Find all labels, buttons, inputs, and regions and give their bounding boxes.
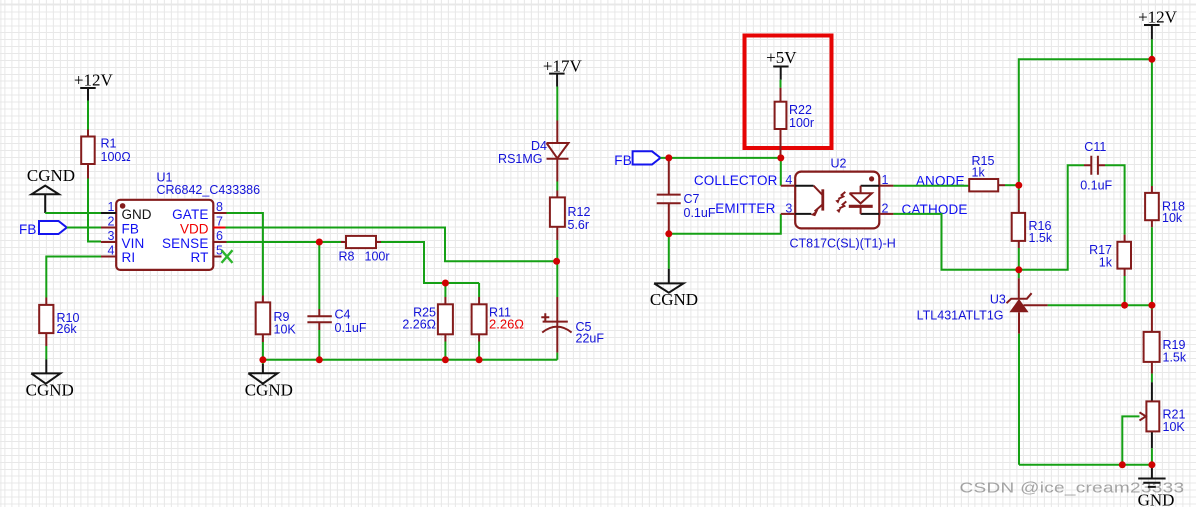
wire C11 to R17: [1105, 165, 1125, 234]
svg-text:R12: R12: [568, 205, 591, 219]
wire GATE pin8 to R9: [227, 213, 263, 296]
svg-text:+17V: +17V: [543, 56, 583, 75]
potentiometer R21 10K: [1140, 382, 1186, 448]
svg-text:10k: 10k: [1162, 211, 1183, 225]
resistor R22 100r: [775, 88, 814, 158]
svg-text:6: 6: [216, 229, 223, 243]
svg-text:3: 3: [108, 229, 115, 243]
wire +12V to R1: [87, 101, 89, 130]
svg-text:CGND: CGND: [650, 290, 698, 309]
svg-text:2: 2: [882, 201, 889, 215]
power flag +12V (left): [74, 71, 114, 101]
svg-text:FB: FB: [19, 222, 37, 237]
net flag FB (left): [19, 221, 67, 237]
ground CGND (under R10): [26, 360, 74, 400]
svg-text:0.1uF: 0.1uF: [684, 206, 716, 220]
svg-text:VDD: VDD: [180, 222, 209, 237]
svg-text:CT817C(SL)(T1)-H: CT817C(SL)(T1)-H: [790, 237, 896, 251]
svg-text:100r: 100r: [789, 116, 814, 130]
optocoupler U2 CT817C(SL)(T1)-H: [781, 157, 896, 251]
svg-text:22uF: 22uF: [576, 332, 605, 346]
ground CGND (under R9): [245, 364, 293, 399]
wire +12V branch: [1019, 59, 1152, 185]
shunt reference U3 LTL431ATLT1G: [917, 270, 1048, 334]
wire collector net: [780, 158, 782, 186]
node R11 rail junction: [476, 356, 483, 363]
wire R16 to node: [1018, 248, 1020, 270]
svg-text:VIN: VIN: [122, 236, 145, 251]
svg-text:1k: 1k: [1099, 255, 1113, 269]
node R22/collector junction: [777, 154, 784, 161]
LED: [861, 186, 880, 214]
svg-text:26k: 26k: [57, 322, 78, 336]
wire R1 to VIN pin3: [88, 179, 101, 242]
node R25 rail junction: [442, 356, 449, 363]
wire R19 to R21: [1151, 374, 1153, 383]
svg-text:U2: U2: [831, 157, 847, 171]
svg-text:4: 4: [785, 173, 792, 187]
svg-text:R8: R8: [339, 250, 355, 264]
pin 4: [101, 256, 116, 258]
svg-text:1: 1: [882, 173, 889, 187]
svg-text:C11: C11: [1084, 140, 1106, 154]
pin 2: [879, 213, 893, 215]
resistor R17 1k: [1089, 235, 1131, 276]
wire +5V to R22: [780, 80, 782, 88]
wire R17 to U3 ref row: [1124, 276, 1126, 305]
ground CGND (top left): [27, 166, 75, 213]
pin 6: [213, 241, 226, 243]
node R15/R16 junction: [1015, 182, 1022, 189]
node SENSE/C4 junction: [316, 239, 323, 246]
node VDD/R12/C5 junction: [553, 258, 560, 265]
pin 7: [213, 227, 225, 229]
svg-text:0.1uF: 0.1uF: [1080, 179, 1112, 193]
svg-text:GND: GND: [122, 207, 152, 222]
svg-text:RT: RT: [190, 250, 208, 265]
wire bottom CGND rail: [263, 359, 557, 361]
power flag +5V: [766, 48, 797, 80]
svg-text:FB: FB: [122, 222, 140, 237]
pin 3: [781, 213, 795, 215]
net flag FB (right): [614, 151, 660, 168]
wire C7 to CGND: [668, 234, 670, 269]
wire pin4 RI to R10: [46, 257, 101, 298]
svg-text:GND: GND: [1138, 491, 1175, 507]
resistor R25 2.26R: [402, 283, 453, 342]
wire C5 to rail: [556, 353, 558, 360]
pin 8: [213, 212, 226, 214]
resistor R19 1.5k: [1144, 305, 1187, 373]
node R9/CGND rail junction: [259, 356, 266, 363]
wire +12V rail: [1151, 39, 1153, 186]
svg-text:C4: C4: [335, 308, 351, 322]
wire anode to R15: [893, 185, 969, 187]
node wiper/rail junction: [1119, 461, 1126, 468]
svg-text:+5V: +5V: [766, 48, 797, 67]
resistor R9 10K: [256, 296, 297, 343]
svg-text:+12V: +12V: [74, 71, 114, 90]
resistor R18 10k: [1145, 186, 1185, 227]
svg-text:LTL431ATLT1G: LTL431ATLT1G: [917, 309, 1004, 323]
highlight box (red): [745, 36, 832, 149]
svg-text:1.5k: 1.5k: [1029, 231, 1053, 245]
svg-text:4: 4: [108, 244, 115, 258]
resistor R16 1.5k: [1012, 185, 1053, 248]
capacitor C7 0.1uF: [657, 158, 716, 234]
svg-text:+12V: +12V: [1138, 7, 1178, 26]
wire VDD pin7 to R12/C5 node: [226, 228, 557, 262]
pin 5: [213, 256, 221, 258]
svg-text:U3: U3: [990, 292, 1006, 306]
phototransistor: [814, 186, 823, 212]
wire R15 to node: [1005, 184, 1019, 186]
svg-text:5.6r: 5.6r: [568, 218, 590, 232]
wire CGND to pin1: [45, 212, 101, 214]
wire C4 to rail: [318, 330, 320, 360]
pin 3: [101, 241, 116, 243]
light arrows: [838, 192, 846, 209]
svg-text:10K: 10K: [1163, 420, 1186, 434]
svg-text:COLLECTOR: COLLECTOR: [694, 173, 778, 188]
wire cathode net: [893, 165, 1084, 269]
svg-text:8: 8: [216, 200, 223, 214]
svg-text:1k: 1k: [972, 166, 986, 180]
svg-text:2.26Ω: 2.26Ω: [489, 317, 524, 332]
capacitor C4 0.1uF: [307, 242, 366, 335]
no-connect X on pin5 RT: [222, 250, 233, 263]
node C7/emitter junction: [665, 230, 672, 237]
power flag +12V (right): [1138, 7, 1178, 39]
svg-text:GATE: GATE: [172, 207, 208, 222]
resistor R15 1k: [969, 154, 1005, 191]
svg-text:FB: FB: [614, 153, 632, 168]
wire R21 to rail: [1151, 448, 1153, 465]
wire bottom GND rail: [1019, 464, 1152, 466]
pin 2: [101, 227, 116, 229]
wire R9 to rail: [262, 342, 264, 364]
svg-text:R22: R22: [789, 103, 812, 117]
resistor R12 5.6r: [550, 191, 591, 241]
svg-text:10K: 10K: [274, 323, 297, 337]
ground CGND (under C7): [650, 269, 698, 309]
svg-text:0.1uF: 0.1uF: [335, 321, 367, 335]
svg-text:RI: RI: [122, 250, 136, 265]
svg-text:CGND: CGND: [26, 380, 74, 399]
node R25 top junction: [442, 280, 449, 287]
svg-text:CR6842_C433386: CR6842_C433386: [157, 183, 261, 197]
node +12V branch junction: [1148, 56, 1155, 63]
svg-text:1.5k: 1.5k: [1163, 351, 1187, 365]
node GND rail junction: [1148, 461, 1155, 468]
ground GND: [1138, 465, 1175, 507]
wire R18 to ref row: [1151, 227, 1153, 305]
wire SENSE pin6 to R8: [227, 241, 342, 243]
power flag +17V: [543, 56, 583, 86]
wire R21 wiper: [1122, 416, 1139, 464]
svg-text:3: 3: [785, 201, 792, 215]
svg-text:SENSE: SENSE: [162, 236, 209, 251]
svg-text:100r: 100r: [365, 250, 390, 264]
wire emitter net: [669, 214, 781, 234]
svg-text:C7: C7: [684, 192, 700, 206]
pin 4: [781, 185, 795, 187]
wire +17V to D4: [556, 87, 558, 121]
resistor R10 26k: [39, 298, 79, 347]
capacitor C11 0.1uF: [1080, 140, 1112, 193]
svg-text:2.26Ω: 2.26Ω: [402, 318, 436, 332]
node FB/C7 junction: [665, 154, 672, 161]
wire FB to pin2: [67, 227, 101, 229]
node R17/ref junction: [1121, 302, 1128, 309]
svg-text:1: 1: [108, 200, 115, 214]
svg-text:R1: R1: [101, 137, 117, 151]
svg-text:7: 7: [216, 215, 223, 229]
resistor R11 2.26R: [472, 283, 525, 342]
node R16/U3 junction: [1015, 266, 1022, 273]
svg-text:CGND: CGND: [245, 380, 293, 399]
op-amp U1 CR6842_C433386: [101, 171, 260, 270]
svg-text:2: 2: [108, 215, 115, 229]
wire R8 to R25/R11 tops: [381, 242, 479, 283]
wire D4 to R12: [556, 182, 558, 191]
diode D4 RS1MG: [498, 121, 568, 182]
node R18/ref junction: [1148, 302, 1155, 309]
pin 1: [101, 212, 116, 214]
wire R12 to node: [556, 240, 558, 261]
svg-text:100Ω: 100Ω: [101, 150, 131, 164]
svg-text:CGND: CGND: [27, 166, 75, 185]
svg-text:RS1MG: RS1MG: [498, 152, 542, 166]
pin 1: [879, 185, 893, 187]
wire FB to C7/R22: [660, 157, 780, 159]
resistor R8 100r: [339, 236, 390, 264]
resistor R1 100R: [81, 130, 131, 179]
wire R11 to rail: [478, 342, 480, 360]
capacitor C5 22uF polarized: [541, 261, 604, 352]
wire U3 ref row: [1048, 304, 1152, 306]
node C4 rail junction: [316, 356, 323, 363]
wire U3 anode down: [1018, 334, 1020, 465]
wire R10 to CGND: [45, 346, 47, 360]
watermark: [960, 480, 1185, 497]
wire R25 to rail: [444, 342, 446, 360]
svg-text:EMITTER: EMITTER: [715, 201, 775, 216]
